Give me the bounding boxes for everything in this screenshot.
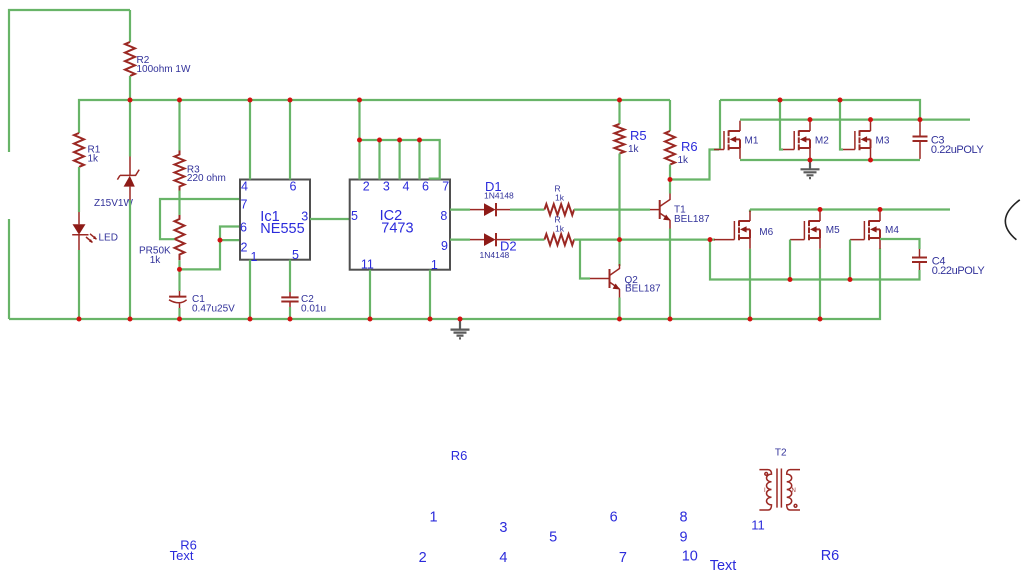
wire Q2 emitter to ground — [618, 298, 620, 320]
wire M4 source to C4 — [880, 239, 920, 249]
wire zener to ground rail — [129, 200, 131, 319]
wire IC2 pin11 to ground — [369, 270, 371, 319]
svg-text:N: N — [792, 488, 796, 494]
junction Q2 emitter ground — [617, 317, 622, 322]
resistor R1 — [74, 133, 84, 167]
resistor R5 — [618, 100, 620, 124]
junction IC1 pin6 at VCC — [288, 98, 293, 103]
svg-text:M4: M4 — [885, 225, 899, 236]
LED — [78, 212, 80, 224]
junction M5 gate C4 line — [788, 277, 793, 282]
svg-text:3: 3 — [499, 520, 507, 536]
junction R5/Q2 node — [617, 237, 622, 242]
svg-text:R6: R6 — [451, 448, 468, 463]
svg-text:1k: 1k — [628, 144, 640, 155]
wire T1 emitter to ground — [669, 229, 671, 319]
IC2 7473 box — [350, 180, 450, 270]
svg-text:7: 7 — [619, 550, 627, 566]
diode D1 1N4148 — [470, 209, 484, 211]
svg-text:R5: R5 — [630, 128, 647, 143]
wire IC1 pin6 left loop — [180, 227, 241, 270]
transistor M1 — [714, 121, 759, 159]
junction M3 drain rail — [868, 117, 873, 122]
wire R3 branch — [178, 100, 180, 151]
junction M3 source rail — [868, 158, 873, 163]
svg-text:3: 3 — [383, 180, 390, 194]
svg-text:M3: M3 — [876, 136, 890, 147]
svg-text:8: 8 — [440, 209, 447, 223]
junction bus pin4 — [397, 138, 402, 143]
svg-text:M6: M6 — [759, 227, 773, 238]
svg-text:6: 6 — [422, 180, 429, 194]
wire D1 to R — [510, 209, 545, 211]
svg-text:Z15V1W: Z15V1W — [94, 198, 133, 209]
wire left frame lower segment — [8, 219, 10, 319]
op-amp IC1 NE555 box — [240, 180, 310, 260]
wire IC2 pin9 lead — [450, 239, 470, 241]
wire M drain rail — [740, 118, 970, 120]
zener diode Z15V1W — [129, 157, 131, 176]
svg-text:1N4148: 1N4148 — [484, 191, 514, 201]
junction IC1 pin4 at VCC — [248, 98, 253, 103]
svg-text:R6: R6 — [821, 548, 840, 564]
wire M6 source to ground — [749, 249, 751, 319]
wire M2 gate drop — [780, 100, 783, 150]
wire IC2 pin1 to ground — [429, 270, 431, 319]
svg-text:1k: 1k — [555, 224, 565, 234]
svg-text:7: 7 — [442, 180, 449, 194]
svg-text:M2: M2 — [815, 136, 829, 147]
junction IC2 pin11 ground — [368, 317, 373, 322]
wire R lower to M6 gate line — [574, 239, 715, 241]
wire R6 bottom — [669, 165, 671, 180]
wire M gate rail top — [720, 100, 920, 120]
ground symbol under M2 — [801, 160, 820, 178]
junction PR50K bottom — [177, 267, 182, 272]
capacitor C3 — [919, 121, 921, 136]
svg-text:1: 1 — [431, 258, 438, 272]
junction M5 source ground — [818, 317, 823, 322]
resistor R lower 1k — [545, 234, 575, 245]
junction M4 gate C4 line — [848, 277, 853, 282]
svg-text:5: 5 — [351, 209, 358, 223]
junction IC2 vcc wire at VCC — [357, 98, 362, 103]
svg-text:10: 10 — [682, 549, 698, 565]
wire IC1 pin7 loop — [160, 199, 240, 239]
wire IC1 pin2 stub — [220, 239, 240, 241]
junction IC1 pin1 ground — [248, 317, 253, 322]
svg-text:5: 5 — [292, 248, 299, 262]
wire C1 upper lead — [178, 269, 180, 291]
svg-text:1k: 1k — [678, 155, 690, 166]
wire R1 to LED — [78, 167, 80, 212]
svg-text:5: 5 — [549, 530, 557, 546]
svg-text:I: I — [764, 488, 766, 494]
svg-text:0.01u: 0.01u — [301, 304, 326, 315]
svg-text:4: 4 — [403, 180, 410, 194]
junction M5 lower drain rail — [818, 207, 823, 212]
junction C1 ground — [177, 317, 182, 322]
junction R3 at VCC — [177, 98, 182, 103]
svg-text:0.22uPOLY: 0.22uPOLY — [932, 265, 986, 277]
wire M lower drain rail — [750, 208, 950, 210]
wire VCC rail — [79, 100, 670, 133]
wire R2 bottom lead — [129, 76, 131, 100]
svg-text:6: 6 — [290, 180, 297, 194]
preset resistor PR50K — [175, 215, 185, 260]
wire M3 gate drop — [840, 100, 843, 150]
svg-text:1k: 1k — [150, 255, 162, 266]
junction zener ground — [128, 317, 133, 322]
svg-text:1: 1 — [251, 250, 258, 264]
wire M5 source to ground — [819, 249, 821, 319]
wire IC1 pin3 to IC2 pin5 — [310, 218, 350, 220]
svg-text:7: 7 — [241, 197, 248, 211]
svg-text:8: 8 — [680, 510, 688, 526]
junction ground symbol — [458, 317, 463, 322]
svg-text:1N4148: 1N4148 — [480, 250, 510, 260]
wire IC2 pin8 lead — [450, 209, 470, 211]
transistor M6 — [714, 211, 774, 249]
wire R3 to PR50K — [178, 191, 180, 216]
svg-text:M1: M1 — [745, 136, 759, 147]
wire IC1 pin1 to ground — [249, 260, 251, 319]
resistor R6 — [669, 100, 671, 131]
svg-text:220 ohm: 220 ohm — [187, 173, 226, 184]
svg-text:Text: Text — [170, 548, 194, 563]
svg-text:0.22uPOLY: 0.22uPOLY — [931, 144, 985, 156]
wire IC2 vcc bus — [360, 100, 440, 180]
svg-text:11: 11 — [361, 258, 374, 272]
svg-text:Text: Text — [710, 558, 737, 574]
wire gate rail drop to M1 gate — [719, 100, 721, 150]
junction M4 lower drain rail — [878, 207, 883, 212]
wire M6 drain drop — [749, 210, 751, 213]
resistor R3 — [175, 151, 185, 191]
svg-text:R6: R6 — [681, 139, 698, 154]
diode D2 1N4148 — [470, 239, 484, 241]
wire M4 gate drop — [849, 240, 851, 280]
svg-text:0.47u25V: 0.47u25V — [192, 304, 235, 315]
junction LED ground — [77, 317, 82, 322]
svg-text:BEL187: BEL187 — [674, 214, 710, 225]
junction M2 gate rail — [778, 98, 783, 103]
transistor M2 — [783, 121, 829, 159]
svg-text:1: 1 — [430, 510, 438, 526]
junction M3 gate rail — [838, 98, 843, 103]
svg-text:2: 2 — [419, 550, 427, 566]
wire zener branch upper — [129, 100, 131, 157]
wire top-left frame — [9, 10, 130, 152]
transformer T2 — [759, 448, 800, 511]
wire C1 to ground rail — [178, 308, 180, 319]
junction R2/zener at VCC — [128, 98, 133, 103]
junction bus pin6 — [417, 138, 422, 143]
junction R6 bottom node — [668, 177, 673, 182]
wire IC1 pin5 to C2 — [289, 260, 291, 292]
junction bus pin3 — [377, 138, 382, 143]
svg-text:2: 2 — [363, 180, 370, 194]
junction M6 source ground — [748, 317, 753, 322]
transistor M4 — [850, 211, 899, 249]
junction IC2 pin1 ground — [428, 317, 433, 322]
svg-text:M5: M5 — [826, 225, 840, 236]
junction bus pin2 — [357, 138, 362, 143]
junction M2 source rail — [808, 158, 813, 163]
wire Q2 base branch — [580, 240, 590, 279]
junction M6 gate node — [708, 237, 713, 242]
wire IC1 pin6 top — [289, 100, 291, 180]
wire R to T1 base — [574, 209, 650, 211]
wire R2 top lead — [129, 10, 131, 42]
svg-text:T2: T2 — [775, 448, 787, 459]
wire C4 bottom to gates line — [710, 240, 920, 280]
resistor R upper 1k — [545, 204, 575, 215]
svg-text:11: 11 — [751, 518, 765, 533]
svg-text:6: 6 — [610, 510, 618, 526]
junction M2 drain rail — [808, 117, 813, 122]
svg-text:LED: LED — [99, 233, 118, 244]
junction dots layer — [77, 98, 923, 322]
wire R6 junction to M1 gate — [670, 150, 719, 180]
wire D2 to R — [510, 239, 545, 241]
wire ground rail — [9, 249, 880, 320]
wire C2 to ground rail — [289, 307, 291, 319]
junction T1 emitter ground — [668, 317, 673, 322]
wire PR50K bottom to junction — [178, 260, 180, 269]
transistor M3 — [843, 121, 890, 159]
svg-text:100ohm 1W: 100ohm 1W — [137, 64, 191, 75]
junction C3 drain rail — [918, 117, 923, 122]
svg-text:6: 6 — [240, 220, 247, 234]
transistor Q2 BEL187 — [590, 278, 609, 280]
svg-text:7473: 7473 — [381, 220, 413, 236]
junction R5 at VCC — [617, 98, 622, 103]
arc connector right edge — [1005, 200, 1019, 240]
wire IC1 pin4 — [249, 100, 251, 180]
svg-text:1k: 1k — [88, 154, 100, 165]
wire LED to ground rail — [78, 250, 80, 319]
wire M source rail — [740, 159, 920, 161]
svg-text:1k: 1k — [555, 193, 565, 203]
svg-text:2: 2 — [241, 241, 248, 255]
ground symbol center — [451, 319, 470, 338]
junction pin2/pin6 tie — [218, 238, 223, 243]
capacitor C1 — [179, 291, 181, 297]
svg-text:9: 9 — [441, 239, 448, 253]
wire R5 to Q2 collector — [618, 154, 620, 267]
svg-text:4: 4 — [241, 180, 248, 194]
svg-text:9: 9 — [680, 530, 688, 546]
junction C2 ground — [288, 317, 293, 322]
resistor R2 — [125, 42, 135, 76]
svg-text:BEL187: BEL187 — [625, 284, 661, 295]
capacitor C4 — [919, 249, 921, 257]
transistor M5 — [790, 211, 840, 249]
wire M5 gate drop — [789, 240, 791, 280]
svg-text:NE555: NE555 — [260, 221, 304, 237]
svg-text:4: 4 — [499, 550, 507, 566]
capacitor C2 — [289, 292, 291, 297]
transistor T1 BEL187 — [669, 180, 671, 194]
